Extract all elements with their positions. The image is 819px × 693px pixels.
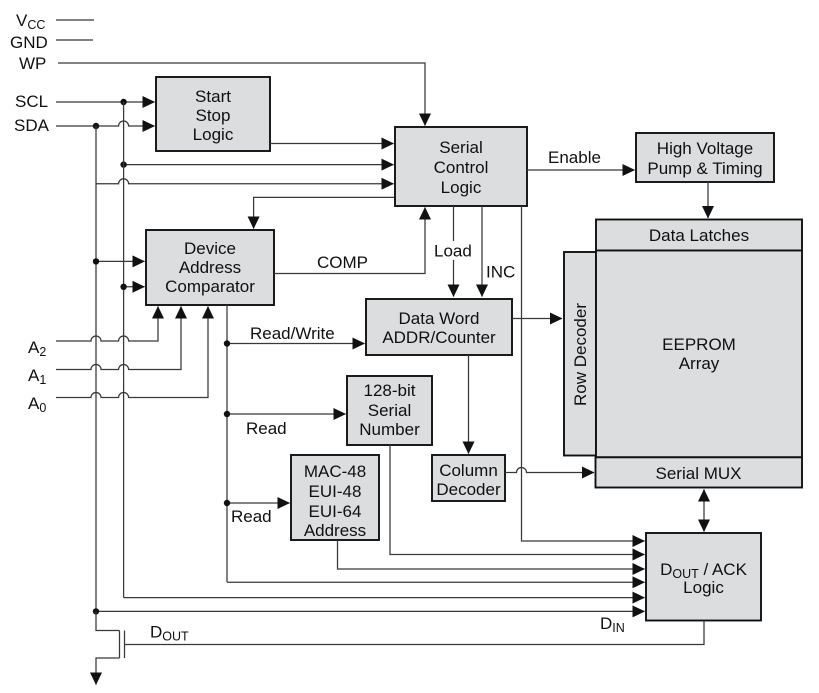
svg-text:Comparator: Comparator [165, 277, 255, 296]
wire Read to 128-bit Serial Number [227, 413, 346, 415]
svg-text:EEPROM: EEPROM [662, 335, 736, 354]
wire SCL into Start Stop Logic [56, 101, 155, 103]
node SCL junction [120, 99, 126, 105]
wire comparator bottom long vertical [226, 305, 228, 582]
box Data Word ADDR/Counter [366, 299, 512, 355]
wire Read to MAC-48 box [227, 502, 290, 504]
wire A0 into comparator (hops over SDA and SCL verticals) [56, 307, 208, 398]
box Serial MUX [596, 457, 803, 487]
wire Column Decoder to Serial MUX (hop over vertical) [505, 468, 594, 473]
wire Start Stop Logic to Serial Control Logic [270, 143, 394, 145]
transistor channel bar [119, 631, 121, 659]
wire serial number box down to Dout/ACK [390, 445, 645, 555]
wire Data Word to Column Decoder [468, 355, 470, 454]
wire Serial Control Logic to Device Address Comparator top [254, 197, 395, 228]
svg-text:High Voltage: High Voltage [657, 139, 753, 158]
transistor source lead to output pin arrow [96, 658, 120, 685]
box Device Address Comparator [146, 230, 274, 305]
wire MAC box down to Dout/ACK [338, 540, 645, 569]
node Read MAC junction [224, 500, 230, 506]
svg-text:Logic: Logic [441, 178, 482, 197]
svg-text:Serial MUX: Serial MUX [656, 464, 742, 483]
wire Serial MUX to Dout/ACK logic (double arrow) [703, 490, 705, 532]
svg-text:SCL: SCL [15, 92, 48, 111]
svg-text:Data Latches: Data Latches [649, 226, 749, 245]
box Data Latches [596, 220, 802, 251]
svg-text:Column: Column [439, 461, 498, 480]
wire WP to Serial Control Logic top [58, 63, 425, 126]
box Column Decoder [432, 455, 505, 501]
box 128-bit Serial Number [347, 376, 432, 445]
box Start Stop Logic [156, 77, 270, 151]
wire SCL vertical to Dout/ACK [124, 597, 645, 599]
wire Read/Write to Data Word ADDR/Counter [227, 343, 365, 345]
transistor gate bar [124, 631, 126, 659]
wire Load from Serial Control Logic to Data Word [453, 206, 455, 297]
node Dout transistor drain junction [93, 608, 99, 614]
svg-text:Number: Number [359, 420, 420, 439]
wire Dout from transistor gate to Dout/ACK logic bottom [125, 621, 705, 645]
svg-text:Serial: Serial [439, 138, 482, 157]
wire VCC stub [56, 19, 94, 21]
svg-text:Address: Address [179, 258, 241, 277]
node SDA comparator junction [93, 258, 99, 264]
svg-text:Logic: Logic [193, 125, 234, 144]
wire A1 into comparator (hops over SDA and SCL verticals) [56, 307, 181, 370]
wire A2 into comparator (hops over SDA and SCL verticals) [56, 307, 158, 342]
box MAC-48 EUI-48 EUI-64 Address [291, 455, 379, 540]
svg-text:COMP: COMP [317, 253, 368, 272]
transistor output driver drain lead [96, 611, 120, 630]
wire SCL branch into Device Address Comparator [124, 286, 145, 288]
svg-text:Row Decoder: Row Decoder [571, 303, 590, 406]
node Read junction [224, 411, 230, 417]
node Read/Write junction [224, 340, 230, 346]
svg-text:GND: GND [10, 33, 48, 52]
box EEPROM Array [596, 251, 802, 458]
svg-text:Array: Array [679, 354, 720, 373]
svg-text:Read: Read [246, 419, 287, 438]
svg-text:SDA: SDA [14, 116, 50, 135]
svg-text:MAC-48: MAC-48 [304, 462, 366, 481]
svg-text:Decoder: Decoder [436, 480, 501, 499]
wire SDA branch into Device Address Comparator [96, 260, 145, 262]
wire SCL vertical branch to Serial Control Logic [124, 164, 394, 166]
svg-text:EUI-48: EUI-48 [309, 482, 362, 501]
svg-text:Address: Address [304, 521, 366, 540]
svg-text:Pump & Timing: Pump & Timing [647, 159, 762, 178]
svg-text:ADDR/Counter: ADDR/Counter [382, 328, 496, 347]
svg-text:EUI-64: EUI-64 [309, 502, 362, 521]
svg-text:Data Word: Data Word [399, 309, 480, 328]
svg-text:Read/Write: Read/Write [250, 324, 335, 343]
svg-text:128-bit: 128-bit [364, 381, 416, 400]
wire SDA into Start Stop Logic (hop over SCL vertical) [56, 121, 155, 126]
wire INC from Serial Control Logic to Data Word [481, 206, 483, 297]
wire SDA vertical branch to Serial Control Logic (hop over SCL vertical) [96, 179, 394, 184]
node SCL branch junction [120, 161, 126, 167]
wire SCL long vertical [123, 102, 125, 598]
node SCL comparator junction [120, 284, 126, 290]
wire Data Word to Row Decoder [512, 318, 562, 320]
box High Voltage Pump & Timing [636, 133, 774, 182]
svg-text:Read: Read [231, 507, 272, 526]
node SDA junction [93, 123, 99, 129]
box Dout / ACK Logic [646, 533, 761, 621]
wire High Voltage Pump to Data Latches [707, 182, 709, 218]
svg-text:Stop: Stop [196, 106, 231, 125]
wire Serial Control Logic down to Dout/ACK logic [522, 206, 645, 541]
wire comparator vertical to Dout/ACK [227, 581, 645, 583]
svg-text:Control: Control [434, 158, 489, 177]
svg-text:Logic: Logic [683, 578, 724, 597]
svg-text:Start: Start [195, 87, 231, 106]
svg-text:INC: INC [486, 263, 515, 282]
svg-text:Enable: Enable [548, 148, 601, 167]
box Row Decoder [564, 252, 596, 456]
svg-text:Device: Device [184, 239, 236, 258]
wire Enable to High Voltage Pump [527, 169, 635, 171]
wire SDA long vertical [95, 126, 97, 611]
box Serial Control Logic [395, 127, 527, 206]
wire COMP from comparator to Serial Control Logic bottom [274, 208, 425, 274]
svg-text:Load: Load [434, 242, 472, 261]
wire GND stub [56, 39, 93, 41]
svg-text:Serial: Serial [368, 401, 411, 420]
svg-text:WP: WP [19, 54, 46, 73]
wire SDA vertical to Dout/ACK (Din) [96, 610, 645, 612]
